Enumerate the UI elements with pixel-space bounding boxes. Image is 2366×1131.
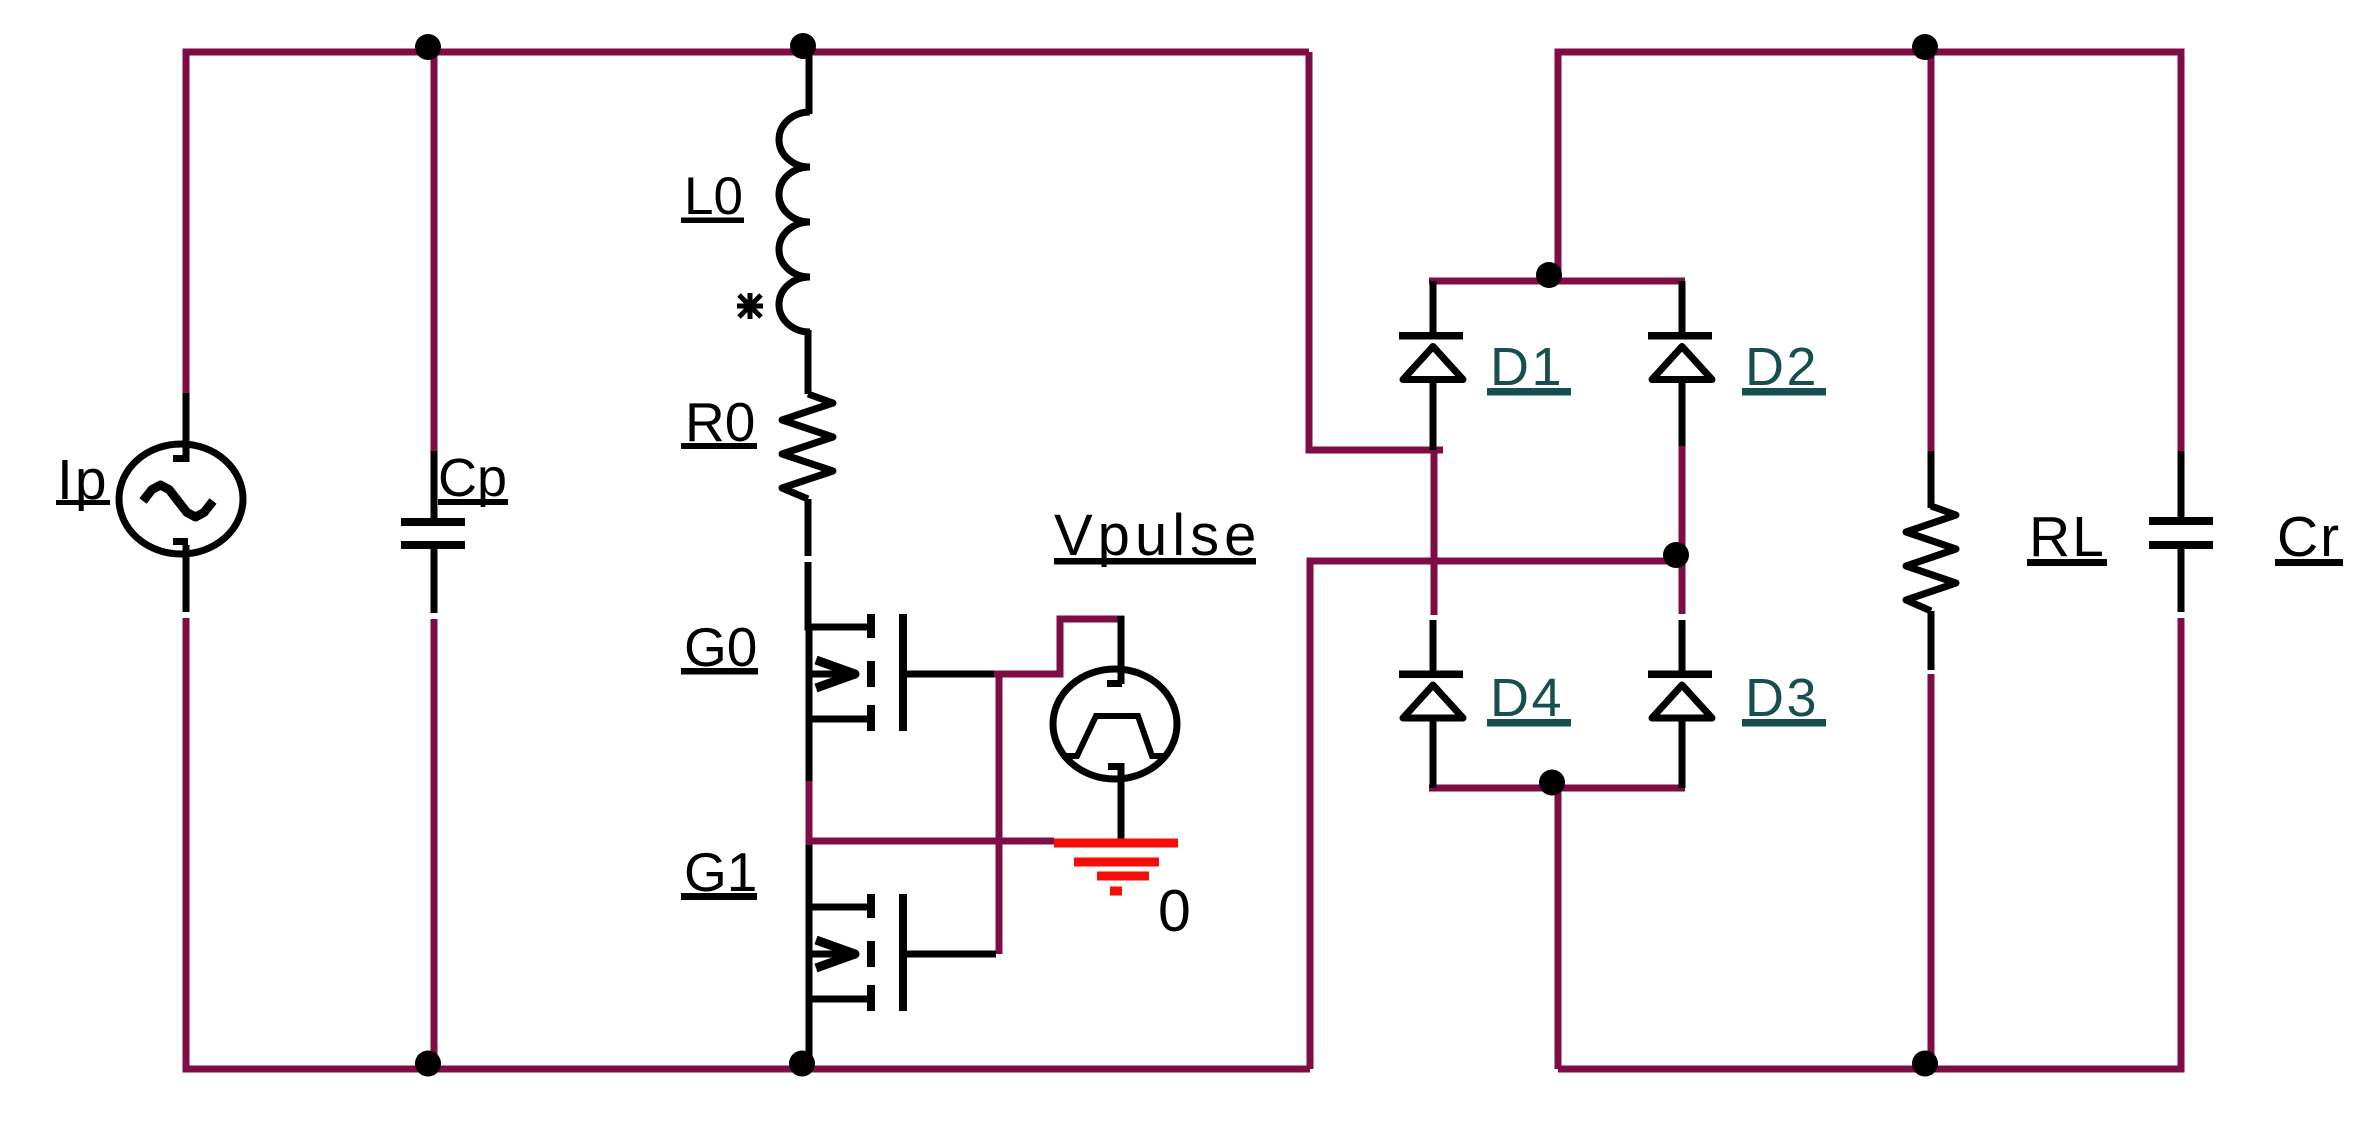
diode D2 [1648,281,1712,446]
diode D4 [1399,620,1463,788]
voltage source Vpulse [1053,616,1177,841]
label Ip [56,448,110,512]
wire below Ip to bottom rail [183,618,190,1073]
diode D1 [1399,281,1463,450]
label G0 [681,616,758,678]
label Vpulse [1054,503,1261,568]
label Cr [2275,505,2343,569]
wire bridge bottom horizontal [1429,785,1685,792]
wire gate bus vertical G0-G1 [996,674,1003,954]
wire bridge left column D1-D4 [1431,450,1438,615]
node dot bridge bottom [1539,770,1565,796]
transistor G0 (NMOS) [809,614,994,731]
diode D3 [1648,620,1712,788]
wire Cp top [431,52,438,453]
wire middle node to ground [806,838,1054,845]
wire gate G0 to Vpulse top [994,619,1121,674]
node dot top rail / L0 [790,33,816,59]
wire bridge right column D2 anode down [1679,446,1686,614]
wire Cp bottom [431,619,438,1069]
node dot right rail top / RL [1912,34,1938,60]
wire/lead R0 to G0 drain [805,499,812,556]
node dot bottom rail / G1 source [789,1051,815,1077]
resistor R0 [782,394,833,499]
wire RL top [1928,52,1935,453]
inductor phase star [737,293,763,319]
node dot top rail / Cp [415,34,441,60]
label D2 [1742,337,1826,397]
node dot bridge right [1663,542,1689,568]
capacitor Cr [2149,451,2213,612]
ground (0) [1054,843,1178,891]
wire bottom rail riser to bridge right node [1310,561,1682,1069]
label D4 [1487,668,1571,728]
wire RL bottom [1928,674,1935,1069]
WIRES-LEFT [186,52,1310,1073]
wire top rail (left circuit) [186,52,1309,56]
lead G0 source down [806,719,813,781]
node dot bottom rail / Cp [415,1051,441,1077]
wire G0 source to G1 drain (middle node) [806,779,813,845]
wire left drop to Ip [183,52,190,396]
label L0 [681,167,744,226]
resistor RL [1906,451,1956,670]
wire bottom rail (right circuit) [1558,1066,2185,1073]
wire bottom rail (left circuit) [186,1066,1310,1070]
node dot bridge top [1536,262,1562,288]
wire Cr bottom [2178,618,2185,1069]
node dot right rail bottom / RL [1912,1051,1938,1077]
wire Cr column right edge [2178,52,2185,453]
svg-text:0: 0 [1158,878,1191,944]
wire top rail (right circuit) [1558,52,2185,281]
wire bridge bottom leg to right bottom rail [1555,788,1562,1069]
wire top rail drop to bridge left node [1309,52,1443,450]
lead G1 source to bottom rail [806,999,813,1069]
WIRES-BRIDGE [1309,52,1685,1069]
current source Ip [119,393,243,612]
capacitor Cp [401,451,465,613]
label RL [2027,505,2107,569]
label G1 [681,841,757,903]
inductor L0 [779,52,810,394]
WIRES-RIGHT [1558,52,2185,1069]
label D3 [1742,668,1826,728]
label D1 [1487,337,1571,397]
label R0 [681,391,757,453]
transistor G1 (NMOS) [809,845,996,1011]
svg-text:L0: L0 [684,167,743,226]
wire bridge top horizontal [1429,278,1685,285]
label Cp [438,448,508,508]
